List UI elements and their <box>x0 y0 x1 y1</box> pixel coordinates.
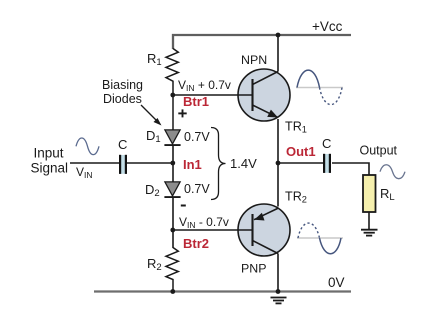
wire cap to RL <box>332 163 369 175</box>
wire cap to In1 <box>127 162 173 164</box>
svg-text:Output: Output <box>360 144 398 158</box>
+Vcc rail <box>173 35 351 49</box>
node dot Vcc junction <box>276 33 281 38</box>
PNP sine wave <box>297 223 343 254</box>
svg-text:0V: 0V <box>328 275 345 290</box>
svg-text:Biasing: Biasing <box>102 78 143 92</box>
svg-text:TR1: TR1 <box>285 119 307 134</box>
svg-text:1.4V: 1.4V <box>230 156 257 171</box>
diode D2 <box>164 182 180 197</box>
curly brace 1.4V <box>211 128 226 200</box>
transistor TR1 (NPN) <box>238 69 290 121</box>
svg-text:D1: D1 <box>146 128 161 145</box>
node dot In1 <box>170 161 175 166</box>
plus sign <box>178 109 186 117</box>
svg-text:Input: Input <box>34 145 64 160</box>
PNP emitter wire <box>277 163 279 207</box>
svg-text:R2: R2 <box>147 256 162 273</box>
svg-text:VIN + 0.7v: VIN + 0.7v <box>178 78 231 93</box>
svg-text:Signal: Signal <box>31 161 69 176</box>
resistor R1 <box>166 49 178 131</box>
node dot Out1 <box>276 161 281 166</box>
ground (main) <box>271 298 287 304</box>
svg-text:C: C <box>118 137 127 152</box>
resistor R2 <box>166 248 178 292</box>
svg-text:In1: In1 <box>183 157 202 172</box>
wire Btr2 to PNP base <box>173 229 252 231</box>
capacitor C (input) <box>119 155 127 174</box>
input signal wire <box>70 162 119 164</box>
svg-text:NPN: NPN <box>241 53 267 67</box>
wire Btr1 to NPN base <box>173 94 252 96</box>
wire bias column lower <box>172 197 174 248</box>
svg-text:0.7V: 0.7V <box>184 182 210 196</box>
svg-text:TR2: TR2 <box>285 190 307 205</box>
svg-text:0.7V: 0.7V <box>184 130 210 144</box>
svg-text:VIN - 0.7v: VIN - 0.7v <box>179 215 229 230</box>
svg-text:+Vcc: +Vcc <box>312 19 343 34</box>
node dot R2 bottom <box>170 289 175 294</box>
RL ground wire <box>368 212 370 229</box>
node dot ground junction <box>276 289 281 294</box>
wire bias column mid <box>172 145 174 182</box>
node dot Btr1 <box>170 93 175 98</box>
svg-text:Btr2: Btr2 <box>183 236 209 251</box>
svg-text:D2: D2 <box>145 182 160 199</box>
NPN collector wire <box>277 35 279 72</box>
svg-text:RL: RL <box>380 186 395 203</box>
diode D1 <box>164 130 180 145</box>
svg-text:Btr1: Btr1 <box>183 94 209 109</box>
svg-text:VIN: VIN <box>76 165 93 180</box>
node dot Btr2 <box>170 228 175 233</box>
NPN sine wave <box>296 70 343 105</box>
annotation arrow <box>141 105 162 126</box>
svg-text:C: C <box>322 136 331 151</box>
svg-text:Out1: Out1 <box>286 144 316 159</box>
output wire <box>278 162 324 164</box>
svg-text:R1: R1 <box>147 51 162 68</box>
capacitor C (output) <box>323 154 331 173</box>
NPN emitter wire <box>277 119 279 163</box>
transistor TR2 (PNP) <box>238 204 290 256</box>
svg-text:PNP: PNP <box>241 262 266 276</box>
load resistor RL <box>363 175 376 212</box>
0V rail <box>94 290 351 292</box>
input sine wave <box>76 138 99 155</box>
minus sign <box>181 205 186 207</box>
ground (RL) <box>361 230 378 236</box>
svg-text:Diodes: Diodes <box>103 92 142 106</box>
output sine wave <box>380 165 405 179</box>
PNP collector wire <box>277 254 279 292</box>
